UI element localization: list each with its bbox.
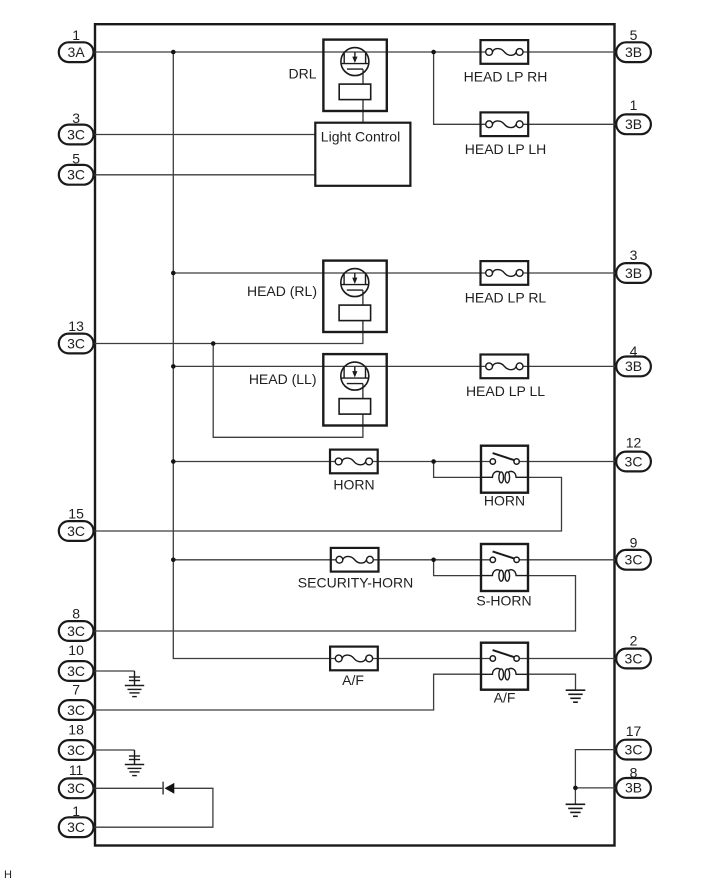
svg-text:3C: 3C bbox=[67, 335, 85, 351]
relay DRL bbox=[323, 40, 386, 111]
wire bus to fuse HORN to relay HORN switch to 3C pin12 bbox=[173, 461, 616, 463]
svg-text:3C: 3C bbox=[67, 623, 85, 639]
junction node (173,52) bbox=[171, 50, 176, 55]
svg-text:H: H bbox=[4, 869, 12, 881]
wire bus to fuse SECURITY-HORN bbox=[173, 559, 490, 561]
svg-text:HORN: HORN bbox=[484, 493, 525, 509]
connector 3C pin 15 bbox=[59, 506, 94, 541]
connector 3C pin 3 bbox=[59, 110, 94, 144]
wire 3C pin5 to Light Control bbox=[93, 174, 315, 176]
svg-text:SECURITY-HORN: SECURITY-HORN bbox=[298, 574, 413, 590]
fuse A/F bbox=[330, 647, 378, 671]
svg-text:3C: 3C bbox=[67, 819, 85, 835]
junction node (433.6,461.5) bbox=[431, 459, 436, 464]
ground at 3C pin17 / 3B pin8 bbox=[566, 804, 586, 816]
svg-text:3C: 3C bbox=[625, 552, 643, 568]
connector 3C pin 18 bbox=[59, 722, 94, 760]
fuse HEAD LP RH bbox=[481, 40, 529, 64]
svg-text:15: 15 bbox=[68, 506, 84, 522]
svg-text:3C: 3C bbox=[67, 742, 85, 758]
svg-text:10: 10 bbox=[68, 642, 84, 658]
svg-text:3C: 3C bbox=[67, 702, 85, 718]
svg-text:3B: 3B bbox=[625, 44, 642, 60]
svg-text:HORN: HORN bbox=[333, 476, 374, 492]
svg-text:Light Control: Light Control bbox=[321, 128, 400, 144]
diode on 3C pin11 line bbox=[162, 782, 164, 795]
svg-text:HEAD LP RL: HEAD LP RL bbox=[465, 289, 547, 305]
wire left vertical bus from node at (173,52) down to A/F fuse bbox=[173, 52, 335, 659]
junction node (575.4,787.9) bbox=[573, 786, 578, 791]
connector 3C pin 10 bbox=[59, 642, 94, 681]
wire S-HORN relay switch to 3C pin9 bbox=[519, 559, 616, 561]
svg-text:1: 1 bbox=[72, 27, 80, 43]
junction node (173,273) bbox=[171, 271, 176, 276]
wire DRL output to Light Control bbox=[362, 111, 364, 123]
connector 3C pin 2 bbox=[616, 632, 651, 668]
connector 3B pin 5 bbox=[616, 27, 651, 62]
svg-text:4: 4 bbox=[630, 343, 638, 359]
svg-text:3C: 3C bbox=[67, 167, 85, 183]
wire 3C pin3 to Light Control bbox=[93, 134, 315, 136]
svg-text:3C: 3C bbox=[67, 780, 85, 796]
wire 3A pin1 feed to fuse HEAD LP RH bbox=[93, 51, 617, 53]
wire branch from node (433.6,52) down to fuse HEAD LP LH bbox=[434, 52, 486, 124]
svg-text:3B: 3B bbox=[625, 358, 642, 374]
wire HORN relay coil to 3C pin15 bbox=[93, 477, 562, 531]
connector 3B pin 3 bbox=[616, 247, 651, 283]
svg-text:S-HORN: S-HORN bbox=[476, 593, 531, 609]
connector 3B pin 8 bbox=[616, 765, 651, 798]
fuse HEAD LP RL bbox=[481, 261, 529, 285]
fuse HORN bbox=[330, 450, 378, 474]
connector 3C pin 7 bbox=[59, 682, 94, 720]
svg-text:2: 2 bbox=[630, 632, 638, 648]
wire node (433.6,461.5) to HORN relay coil bbox=[434, 462, 481, 478]
junction node (213,343.5) bbox=[211, 341, 216, 346]
connector 3C pin 13 bbox=[59, 318, 94, 353]
svg-text:11: 11 bbox=[69, 762, 84, 778]
capacitor-ground at 3C pin10 bbox=[125, 671, 144, 697]
svg-text:3B: 3B bbox=[625, 780, 642, 796]
svg-text:7: 7 bbox=[72, 682, 80, 698]
junction node (173,559.8) bbox=[171, 558, 176, 563]
junction node (433.6,559.8) bbox=[431, 558, 436, 563]
connector 3B pin 4 bbox=[616, 343, 651, 376]
svg-text:3C: 3C bbox=[625, 741, 643, 757]
svg-text:A/F: A/F bbox=[494, 690, 516, 706]
relay HEAD (RL) bbox=[323, 261, 386, 332]
svg-text:17: 17 bbox=[626, 723, 642, 739]
svg-text:18: 18 bbox=[68, 722, 84, 738]
svg-text:3B: 3B bbox=[625, 265, 642, 281]
svg-text:3C: 3C bbox=[67, 523, 85, 539]
Light Control module bbox=[315, 123, 410, 186]
wire fuse A/F to relay A/F switch to 3C pin2 bbox=[373, 658, 617, 660]
connector 3C pin 12 bbox=[616, 434, 651, 471]
connector 3C pin 11 bbox=[59, 762, 94, 798]
connector 3C pin 17 bbox=[616, 723, 651, 760]
junction node (433.6,52) bbox=[431, 50, 436, 55]
relay HORN bbox=[481, 446, 528, 493]
wire 3C pin18 to capacitor-ground bbox=[93, 749, 135, 751]
connector 3B pin 1 bbox=[616, 97, 651, 134]
svg-text:HEAD LP LH: HEAD LP LH bbox=[465, 141, 546, 157]
svg-text:HEAD (LL): HEAD (LL) bbox=[249, 371, 317, 387]
svg-text:13: 13 bbox=[68, 318, 84, 334]
fuse HEAD LP LH bbox=[481, 112, 529, 136]
wire node (433.6,559.8) to S-HORN relay coil bbox=[434, 560, 481, 576]
wire bus to HEAD (RL) and fuse HEAD LP RL bbox=[173, 272, 616, 274]
svg-text:12: 12 bbox=[626, 434, 642, 450]
svg-text:A/F: A/F bbox=[342, 672, 364, 688]
relay HEAD (LL) bbox=[323, 354, 386, 425]
wire 3C pin11 through diode bbox=[93, 788, 213, 827]
fuse HEAD LP LL bbox=[481, 355, 529, 379]
wire bus to HEAD (LL) and fuse HEAD LP LL bbox=[173, 365, 616, 367]
wire 3C pin7 to A/F relay coil bbox=[93, 674, 481, 710]
fuse SECURITY-HORN bbox=[331, 548, 379, 572]
svg-text:3C: 3C bbox=[625, 650, 643, 666]
junction node (173,461.5) bbox=[171, 459, 176, 464]
capacitor-ground at 3C pin18 bbox=[125, 750, 144, 776]
relay A/F bbox=[481, 643, 528, 690]
wire S-HORN relay coil to 3C pin8 bbox=[93, 576, 576, 631]
connector 3C pin 1 (bottom) bbox=[59, 803, 94, 837]
wire 3C pin17 down to ground bbox=[575, 750, 616, 805]
svg-text:HEAD LP RH: HEAD LP RH bbox=[464, 69, 548, 85]
svg-text:3: 3 bbox=[72, 110, 80, 126]
relay S-HORN bbox=[481, 544, 528, 591]
wire 3C pin10 to capacitor-ground bbox=[93, 670, 135, 672]
svg-text:3: 3 bbox=[630, 247, 638, 263]
wire 3C pin13 to HEAD (RL) coil bbox=[93, 332, 363, 344]
svg-text:HEAD LP LL: HEAD LP LL bbox=[466, 383, 545, 399]
connector 3C pin 9 bbox=[616, 535, 651, 570]
svg-text:DRL: DRL bbox=[288, 66, 316, 82]
ground at A/F relay coil bbox=[566, 690, 586, 702]
wire fuse HEAD LP LH to connector 3B pin1 bbox=[523, 123, 617, 125]
svg-text:3C: 3C bbox=[67, 663, 85, 679]
svg-text:3C: 3C bbox=[625, 453, 643, 469]
svg-text:3C: 3C bbox=[67, 126, 85, 142]
wire A/F relay coil to ground bbox=[528, 674, 576, 690]
svg-text:3A: 3A bbox=[68, 44, 86, 60]
svg-text:5: 5 bbox=[630, 27, 638, 43]
svg-text:5: 5 bbox=[72, 150, 80, 166]
svg-text:3B: 3B bbox=[625, 116, 642, 132]
wire branch node (213,343.5) to HEAD (LL) coil bbox=[213, 344, 363, 438]
svg-text:9: 9 bbox=[630, 535, 638, 551]
junction node (173,366) bbox=[171, 364, 176, 369]
wire 3B pin8 to ground junction bbox=[575, 787, 616, 789]
connector 3C pin 5 bbox=[59, 150, 94, 184]
svg-text:8: 8 bbox=[72, 606, 80, 622]
connector 3A pin 1 bbox=[59, 27, 94, 62]
svg-text:1: 1 bbox=[630, 97, 638, 113]
svg-text:1: 1 bbox=[72, 803, 80, 819]
svg-text:HEAD (RL): HEAD (RL) bbox=[247, 283, 317, 299]
svg-text:8: 8 bbox=[630, 765, 638, 781]
connector 3C pin 8 bbox=[59, 606, 94, 641]
junction block outline bbox=[95, 24, 615, 845]
